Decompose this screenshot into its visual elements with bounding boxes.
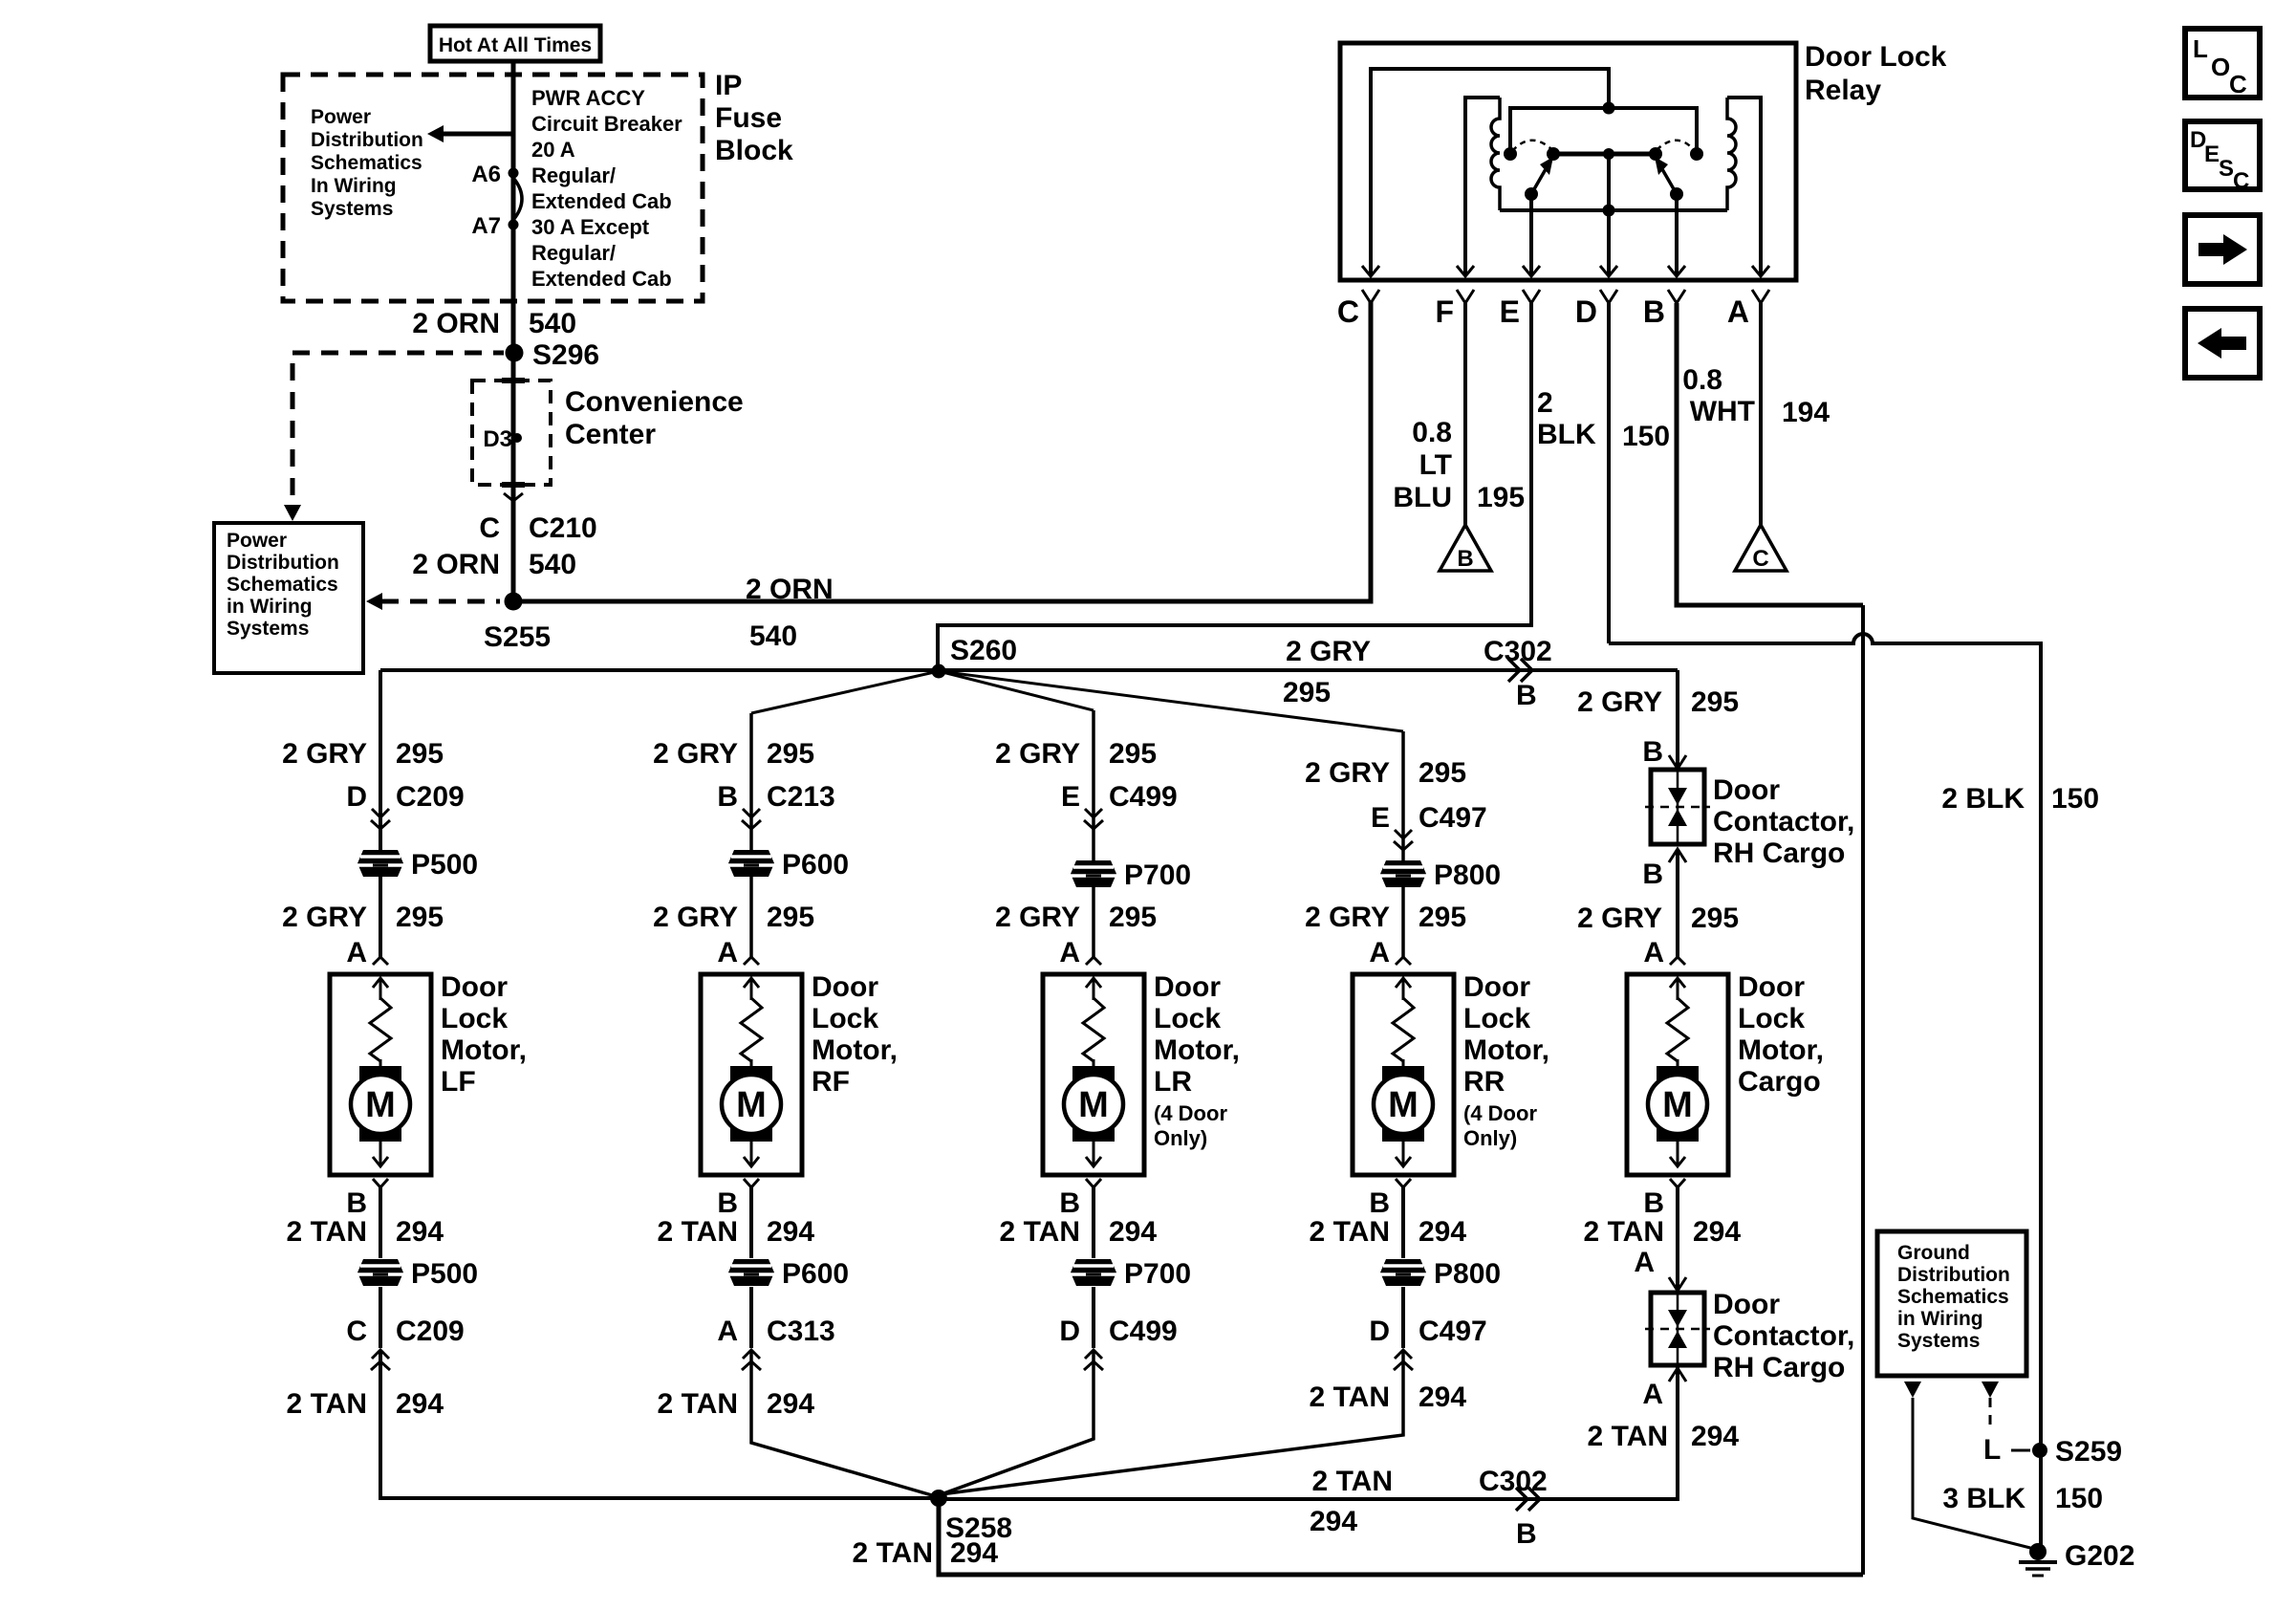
svg-text:Extended Cab: Extended Cab — [531, 189, 672, 213]
svg-text:Motor,: Motor, — [812, 1034, 898, 1066]
splice S258 — [930, 1490, 947, 1507]
svg-text:2 TAN: 2 TAN — [1310, 1216, 1390, 1248]
svg-text:Circuit Breaker: Circuit Breaker — [531, 112, 682, 136]
svg-text:2 GRY: 2 GRY — [1577, 686, 1662, 718]
svg-text:2 TAN: 2 TAN — [287, 1388, 367, 1420]
wire: 2 GRY 295 LR drop — [1092, 710, 1095, 957]
wire: right side vertical to bottom rail — [1861, 605, 1865, 1575]
svg-text:in Wiring: in Wiring — [1897, 1308, 1983, 1330]
wire: pin F to left coil — [1465, 98, 1500, 275]
svg-text:Door: Door — [1154, 971, 1221, 1003]
svg-text:540: 540 — [529, 308, 576, 339]
connector C210 female fork — [504, 493, 523, 501]
svg-text:D: D — [1575, 294, 1597, 329]
svg-text:294: 294 — [950, 1537, 998, 1569]
relay rail junction (pin D) — [1603, 205, 1615, 217]
wire: cargo to bottom tan rail — [939, 1365, 1678, 1499]
svg-text:RR: RR — [1463, 1066, 1505, 1098]
svg-text:2 ORN: 2 ORN — [746, 574, 834, 605]
svg-text:P700: P700 — [1124, 1258, 1191, 1290]
wire: relay pin C internal feed — [1371, 69, 1609, 275]
splice S296 — [506, 344, 524, 362]
relay dashed throw arc left — [1512, 141, 1552, 151]
svg-text:294: 294 — [1691, 1421, 1739, 1452]
svg-text:150: 150 — [1622, 421, 1670, 452]
grommet P700 — [1071, 860, 1116, 887]
label: Power Distribution Schematics In Wiring Systems (top) — [311, 106, 423, 220]
relay movable contact pivot left (pin E) — [1525, 187, 1538, 201]
svg-text:294: 294 — [396, 1388, 444, 1420]
svg-text:BLU: BLU — [1393, 482, 1452, 513]
svg-text:A: A — [1369, 937, 1390, 968]
svg-text:150: 150 — [2051, 783, 2099, 815]
wire: 2 TAN 294 LR to S258 — [939, 1352, 1094, 1495]
svg-text:P800: P800 — [1434, 1258, 1501, 1290]
svg-text:Distribution: Distribution — [311, 129, 423, 151]
Power Distribution Schematics box (solid) — [214, 523, 363, 673]
svg-text:Power: Power — [311, 106, 371, 128]
svg-text:295: 295 — [1691, 686, 1739, 718]
svg-text:C213: C213 — [767, 781, 835, 813]
svg-text:Door Lock: Door Lock — [1805, 41, 1947, 73]
wire: RR motor to P800 — [1401, 1187, 1405, 1258]
svg-text:Contactor,: Contactor, — [1713, 806, 1854, 838]
wire: RF P600 to C313 — [749, 1287, 753, 1348]
relay contact bar right end — [1649, 147, 1662, 161]
relay pin C connector fork — [1362, 290, 1379, 303]
dashed wire: ground box right lead to S259 — [1989, 1398, 1992, 1432]
svg-text:B: B — [1369, 1187, 1390, 1219]
svg-text:RH Cargo: RH Cargo — [1713, 1352, 1845, 1383]
svg-text:B: B — [717, 1187, 738, 1219]
svg-text:Regular/: Regular/ — [531, 163, 616, 187]
grommet P800 — [1380, 1259, 1426, 1286]
off-page triangle connector B — [1440, 525, 1491, 572]
wire: pin F 0.8 LT BLU 195 to connector B — [1463, 303, 1467, 525]
svg-text:Center: Center — [565, 419, 656, 450]
svg-text:Motor,: Motor, — [1463, 1034, 1549, 1066]
wire: diagonal S260 to RR column — [939, 671, 1403, 731]
svg-text:A: A — [1643, 937, 1664, 968]
wire: pin B 0.8 WHT to right side down-run — [1677, 303, 1863, 605]
wire: diagonal S260 to RF column — [751, 671, 939, 713]
svg-text:D3: D3 — [483, 426, 512, 452]
wire: contact bar center to coil common rail — [1607, 154, 1611, 210]
svg-text:S260: S260 — [950, 635, 1017, 666]
svg-text:294: 294 — [1109, 1216, 1157, 1248]
IP Fuse Block dashed box — [283, 75, 703, 301]
relay pin arrowhead x=1602 — [1523, 266, 1540, 276]
svg-text:2 GRY: 2 GRY — [995, 902, 1080, 933]
relay coil right (unlock) — [1727, 98, 1736, 210]
svg-text:540: 540 — [529, 549, 576, 580]
svg-text:Power: Power — [227, 530, 287, 552]
svg-text:A: A — [717, 937, 738, 968]
nav icon DESC — [2185, 121, 2260, 194]
svg-text:Block: Block — [715, 135, 793, 166]
svg-text:Schematics: Schematics — [227, 574, 338, 596]
svg-text:2 TAN: 2 TAN — [1000, 1216, 1080, 1248]
svg-text:Only): Only) — [1463, 1126, 1517, 1150]
connector C497 (upper, male/female) — [1395, 830, 1412, 838]
svg-text:IP: IP — [715, 70, 742, 101]
motor M: Door Lock Motor RF — [701, 974, 802, 1175]
svg-text:2 TAN: 2 TAN — [287, 1216, 367, 1248]
svg-text:L: L — [1983, 1434, 2001, 1466]
svg-text:295: 295 — [1283, 677, 1331, 708]
svg-text:D: D — [1369, 1316, 1390, 1347]
svg-text:O: O — [2211, 53, 2230, 81]
svg-text:P500: P500 — [411, 849, 478, 881]
svg-text:195: 195 — [1477, 482, 1525, 513]
motor M: Door Lock Motor LF — [330, 974, 431, 1175]
connector fork above motor LF — [373, 957, 388, 965]
off-page triangle connector C — [1735, 525, 1787, 572]
svg-text:2 TAN: 2 TAN — [1312, 1466, 1393, 1497]
svg-text:2 GRY: 2 GRY — [282, 902, 367, 933]
svg-text:Cargo: Cargo — [1738, 1066, 1821, 1098]
connector C499 (upper, male/female) — [1085, 809, 1102, 817]
svg-text:C209: C209 — [396, 781, 465, 813]
connector fork above motor LR — [1086, 957, 1101, 965]
svg-text:2 GRY: 2 GRY — [282, 738, 367, 770]
svg-text:Regular/: Regular/ — [531, 241, 616, 265]
nav icon back arrow — [2185, 309, 2260, 378]
svg-text:A: A — [1059, 937, 1080, 968]
svg-text:0.8: 0.8 — [1682, 364, 1722, 396]
svg-text:M: M — [1662, 1085, 1693, 1125]
svg-text:WHT: WHT — [1690, 396, 1755, 427]
relay internal junction (feed) — [1603, 102, 1615, 115]
svg-text:LR: LR — [1154, 1066, 1192, 1098]
svg-text:2 TAN: 2 TAN — [658, 1216, 738, 1248]
wire: L stub to S259 — [2011, 1449, 2030, 1452]
svg-text:295: 295 — [767, 738, 814, 770]
svg-text:2 GRY: 2 GRY — [1577, 903, 1662, 934]
svg-text:Ground: Ground — [1897, 1242, 1970, 1264]
svg-text:295: 295 — [1109, 738, 1157, 770]
svg-text:B: B — [1059, 1187, 1080, 1219]
svg-text:295: 295 — [396, 738, 444, 770]
wire: 150 horizontal run to right margin — [1609, 634, 2041, 1548]
relay pin arrowhead x=1842 — [1752, 266, 1769, 276]
svg-text:M: M — [365, 1085, 396, 1125]
relay coil left (lock) — [1491, 98, 1500, 210]
svg-text:B: B — [1643, 1187, 1664, 1219]
connector fork below motor LF — [373, 1179, 388, 1187]
svg-text:295: 295 — [396, 902, 444, 933]
svg-text:Door: Door — [1738, 971, 1805, 1003]
Convenience Center dashed box — [472, 381, 551, 485]
svg-text:2 TAN: 2 TAN — [1588, 1421, 1668, 1452]
wire: 2 ORN 540 trunk S255 to relay pin C — [513, 301, 1371, 601]
svg-text:Relay: Relay — [1805, 75, 1881, 106]
svg-text:LT: LT — [1419, 449, 1452, 481]
svg-text:A: A — [1727, 294, 1749, 329]
svg-text:Schematics: Schematics — [1897, 1286, 2009, 1308]
wire: pin B internal — [1675, 194, 1679, 275]
relay dashed throw arc right — [1657, 141, 1695, 151]
connector C210 box crossing ticks — [502, 378, 525, 383]
wire: 2 TAN 294 LF to S258 — [380, 1352, 932, 1498]
svg-text:Distribution: Distribution — [1897, 1264, 2010, 1286]
connector fork below motor LR — [1086, 1179, 1101, 1187]
relay pin arrowhead x=1754 — [1668, 266, 1685, 276]
svg-text:C: C — [1337, 294, 1359, 329]
svg-text:2 ORN: 2 ORN — [412, 549, 500, 580]
svg-text:C: C — [346, 1316, 367, 1347]
svg-text:P500: P500 — [411, 1258, 478, 1290]
splice S259 — [2032, 1443, 2047, 1458]
relay pin A connector fork — [1752, 290, 1769, 303]
connector C302 (gray) arrows — [1508, 659, 1532, 682]
svg-text:2 TAN: 2 TAN — [658, 1388, 738, 1420]
svg-text:M: M — [1078, 1085, 1109, 1125]
wire: ground box left lead to G202 — [1913, 1398, 2038, 1550]
svg-text:2 TAN: 2 TAN — [853, 1537, 933, 1569]
svg-text:B: B — [1457, 546, 1473, 572]
svg-text:2 GRY: 2 GRY — [1305, 757, 1390, 789]
relay fixed contact right — [1690, 147, 1703, 161]
relay pin arrowhead x=1683 — [1600, 266, 1617, 276]
svg-text:2 BLK: 2 BLK — [1941, 783, 2025, 815]
svg-text:Lock: Lock — [441, 1003, 508, 1034]
svg-text:2 TAN: 2 TAN — [1310, 1382, 1390, 1413]
nav icon forward arrow — [2185, 215, 2260, 284]
connector fork above motor Cargo — [1670, 957, 1685, 965]
svg-text:294: 294 — [1310, 1506, 1357, 1537]
connector fork above motor RR — [1396, 957, 1411, 965]
wire: LR P700 to C499 — [1092, 1287, 1095, 1348]
node D3 terminal — [512, 433, 522, 443]
wire: 2 GRY 295 RR drop — [1401, 731, 1405, 957]
grommet P800 — [1380, 860, 1426, 887]
relay movable contact arm left — [1531, 169, 1546, 194]
svg-text:295: 295 — [1691, 903, 1739, 934]
svg-text:C210: C210 — [529, 512, 597, 544]
grommet P500 — [357, 1259, 403, 1286]
svg-text:A6: A6 — [471, 162, 501, 187]
svg-text:Lock: Lock — [1738, 1003, 1805, 1034]
svg-text:Systems: Systems — [311, 198, 393, 220]
wire: S258 drop to lower rail — [939, 1498, 1863, 1575]
svg-text:C302: C302 — [1479, 1466, 1548, 1497]
wire: pin A to right coil — [1727, 98, 1761, 275]
svg-text:M: M — [1388, 1085, 1419, 1125]
wire: pin D internal — [1607, 210, 1611, 275]
wire: pin E 2 BLK to S260 — [938, 303, 1531, 666]
wire: 2 TAN 294 RF to S258 — [751, 1352, 932, 1495]
wire: pin E internal — [1529, 194, 1533, 275]
grommet P500 — [357, 850, 403, 877]
relay pin arrowhead x=1434 — [1362, 266, 1379, 276]
svg-text:194: 194 — [1782, 397, 1830, 428]
svg-text:Motor,: Motor, — [441, 1034, 527, 1066]
wire: branch arrow to Power Distribution Schematics — [443, 132, 513, 137]
label PWR ACCY Circuit Breaker ratings — [531, 86, 682, 291]
motor M: Door Lock Motor Cargo — [1627, 974, 1728, 1175]
connector C209 (upper, male/female) — [372, 809, 389, 817]
svg-text:G202: G202 — [2065, 1540, 2134, 1572]
connector fork below motor RR — [1396, 1179, 1411, 1187]
svg-text:294: 294 — [1419, 1216, 1466, 1248]
relay coil common rail — [1500, 208, 1727, 212]
svg-text:294: 294 — [767, 1216, 814, 1248]
svg-text:L: L — [2193, 34, 2208, 63]
svg-text:LF: LF — [441, 1066, 476, 1098]
svg-text:540: 540 — [749, 620, 797, 652]
svg-text:295: 295 — [767, 902, 814, 933]
svg-text:C: C — [2229, 70, 2247, 98]
svg-text:Convenience: Convenience — [565, 386, 744, 418]
svg-text:B: B — [1642, 859, 1663, 890]
svg-text:In Wiring: In Wiring — [311, 175, 397, 197]
svg-text:Contactor,: Contactor, — [1713, 1320, 1854, 1352]
svg-text:30 A Except: 30 A Except — [531, 215, 650, 239]
connector fork above motor RF — [744, 957, 759, 965]
wire: LF P500 to C209 — [379, 1287, 382, 1348]
dashed wire: S255 to power distribution box — [381, 599, 500, 604]
svg-text:Extended Cab: Extended Cab — [531, 267, 672, 291]
svg-text:S296: S296 — [532, 339, 599, 371]
wire: battery feed vertical (fuse block to S255) — [511, 61, 516, 601]
svg-text:(4 Door: (4 Door — [1154, 1101, 1227, 1125]
svg-text:Door: Door — [812, 971, 878, 1003]
svg-text:F: F — [1435, 294, 1454, 329]
svg-text:2 TAN: 2 TAN — [1584, 1216, 1664, 1248]
svg-text:295: 295 — [1419, 902, 1466, 933]
svg-text:C209: C209 — [396, 1316, 465, 1347]
svg-text:Only): Only) — [1154, 1126, 1207, 1150]
svg-text:Systems: Systems — [227, 618, 309, 640]
ground symbol G202 — [2019, 1562, 2057, 1576]
wire: 2 GRY 295 LF drop — [379, 670, 382, 957]
wire: LF motor to P500 — [379, 1187, 382, 1258]
svg-text:Lock: Lock — [1463, 1003, 1530, 1034]
label box "Hot At All Times" — [430, 26, 600, 61]
svg-text:P600: P600 — [782, 849, 849, 881]
wire: contactor to cargo motor — [1676, 851, 1679, 957]
svg-text:S259: S259 — [2055, 1436, 2122, 1468]
relay pin D connector fork — [1600, 290, 1617, 303]
svg-text:A: A — [1634, 1247, 1655, 1278]
svg-text:3 BLK: 3 BLK — [1942, 1483, 2025, 1514]
svg-text:E: E — [1061, 781, 1080, 813]
motor M: Door Lock Motor LR — [1043, 974, 1144, 1175]
svg-text:295: 295 — [1419, 757, 1466, 789]
svg-text:E: E — [2204, 141, 2220, 167]
connector C313 (lower) — [743, 1350, 760, 1359]
svg-text:Lock: Lock — [812, 1003, 878, 1034]
connector C302 (tan) arrows — [1516, 1488, 1540, 1511]
svg-text:C: C — [479, 512, 500, 544]
svg-text:A: A — [717, 1316, 738, 1347]
svg-text:Distribution: Distribution — [227, 552, 339, 574]
svg-text:150: 150 — [2055, 1483, 2103, 1514]
svg-text:B: B — [717, 781, 738, 813]
svg-text:B: B — [346, 1187, 367, 1219]
svg-text:in Wiring: in Wiring — [227, 596, 313, 618]
svg-text:294: 294 — [1419, 1382, 1466, 1413]
svg-text:(4 Door: (4 Door — [1463, 1101, 1537, 1125]
wire: pin D 150 across with hop over pin B wire — [1607, 303, 1611, 643]
svg-text:Systems: Systems — [1897, 1330, 1980, 1352]
connector C497 (lower) — [1395, 1350, 1412, 1359]
svg-text:2 GRY: 2 GRY — [995, 738, 1080, 770]
svg-text:2 GRY: 2 GRY — [1286, 636, 1371, 667]
svg-text:Motor,: Motor, — [1738, 1034, 1824, 1066]
svg-text:0.8: 0.8 — [1412, 417, 1452, 448]
Ground Distribution Schematics box — [1877, 1231, 2026, 1376]
grommet P700 — [1071, 1259, 1116, 1286]
svg-text:C302: C302 — [1484, 636, 1552, 667]
relay movable contact arm right — [1662, 169, 1677, 194]
wire: bus corner down to RH cargo contactor — [1676, 670, 1679, 770]
nav icon LOC — [2185, 29, 2260, 98]
relay pin B connector fork — [1668, 290, 1685, 303]
svg-text:2 GRY: 2 GRY — [653, 738, 738, 770]
node A7 terminal — [509, 220, 519, 230]
svg-text:Motor,: Motor, — [1154, 1034, 1240, 1066]
svg-text:Door: Door — [441, 971, 508, 1003]
svg-text:BLK: BLK — [1537, 419, 1596, 450]
relay pin F connector fork — [1457, 290, 1474, 303]
wire: 2 GRY 295 RF drop — [749, 713, 753, 957]
svg-text:PWR ACCY: PWR ACCY — [531, 86, 645, 110]
motor M: Door Lock Motor RR — [1353, 974, 1454, 1175]
relay contact bar center — [1603, 148, 1614, 160]
svg-text:Door: Door — [1463, 971, 1530, 1003]
svg-text:Schematics: Schematics — [311, 152, 422, 174]
svg-text:2: 2 — [1537, 387, 1553, 419]
svg-text:S: S — [2219, 156, 2234, 182]
svg-text:20 A: 20 A — [531, 138, 575, 162]
svg-text:B: B — [1643, 294, 1665, 329]
svg-text:RF: RF — [812, 1066, 850, 1098]
svg-text:E: E — [1371, 802, 1390, 834]
svg-text:E: E — [1500, 294, 1520, 329]
grommet P600 — [728, 850, 774, 877]
svg-text:B: B — [1516, 680, 1537, 711]
connector C213 (upper, male/female) — [743, 809, 760, 817]
svg-text:S255: S255 — [484, 621, 551, 653]
relay K: Door Lock Relay box — [1340, 43, 1796, 280]
svg-text:2 ORN: 2 ORN — [412, 308, 500, 339]
connector fork below motor Cargo — [1670, 1179, 1685, 1187]
svg-text:P600: P600 — [782, 1258, 849, 1290]
wire: pin A 0.8 WHT 194 to connector C — [1759, 303, 1763, 525]
svg-text:C499: C499 — [1109, 1316, 1178, 1347]
svg-text:C: C — [1752, 546, 1768, 572]
svg-text:Door: Door — [1713, 1289, 1780, 1320]
svg-text:2 GRY: 2 GRY — [653, 902, 738, 933]
svg-text:Hot At All Times: Hot At All Times — [439, 34, 592, 56]
svg-text:294: 294 — [1693, 1216, 1741, 1248]
wire: LR motor to P700 — [1092, 1187, 1095, 1258]
dashed wire: S296 to power distribution reference — [292, 351, 504, 356]
svg-text:Door: Door — [1713, 774, 1780, 806]
node A6 terminal — [509, 168, 519, 179]
svg-text:Fuse: Fuse — [715, 102, 782, 134]
wire: RF motor to P600 — [749, 1187, 753, 1258]
svg-text:B: B — [1642, 736, 1663, 768]
svg-text:C499: C499 — [1109, 781, 1178, 813]
relay contact bar left end — [1547, 147, 1560, 161]
svg-text:RH Cargo: RH Cargo — [1713, 838, 1845, 869]
wire: RR P800 to C497 — [1401, 1287, 1405, 1348]
svg-text:294: 294 — [396, 1216, 444, 1248]
ground G202 node — [2029, 1543, 2047, 1560]
